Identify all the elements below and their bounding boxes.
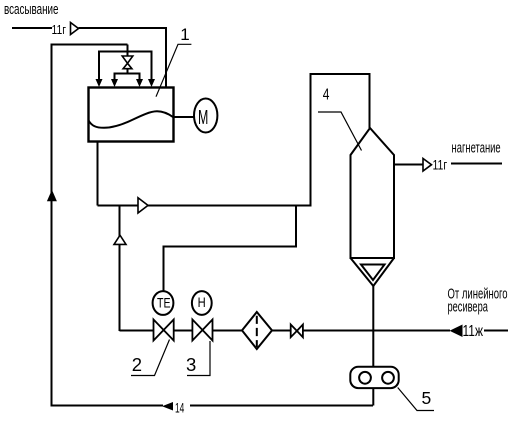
svg-text:5: 5 [422,388,432,408]
svg-text:нагнетание: нагнетание [452,139,501,156]
svg-text:M: M [198,106,208,129]
svg-text:TE: TE [157,295,171,311]
svg-text:14: 14 [175,402,185,417]
svg-text:2: 2 [132,354,142,375]
svg-text:4: 4 [323,85,330,103]
svg-text:11г: 11г [52,22,67,38]
svg-text:1: 1 [180,25,189,44]
svg-text:11ж: 11ж [463,321,484,339]
svg-text:11г: 11г [433,157,448,173]
svg-text:ресивера: ресивера [448,298,489,315]
svg-text:3: 3 [186,354,196,375]
svg-text:всасывание: всасывание [4,1,59,17]
svg-text:H: H [198,295,206,310]
